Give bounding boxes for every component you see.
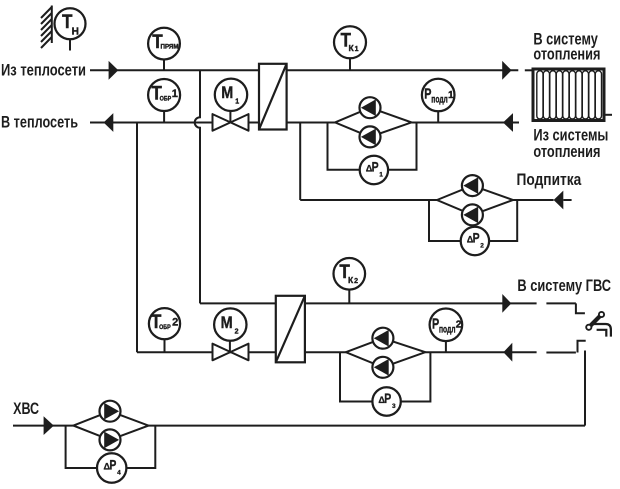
svg-text:ХВС: ХВС <box>13 399 39 418</box>
svg-text:1: 1 <box>235 99 239 106</box>
svg-text:P: P <box>384 390 391 406</box>
svg-text:1: 1 <box>172 88 178 100</box>
svg-text:подл: подл <box>439 325 456 336</box>
svg-text:Подпитка: Подпитка <box>517 170 582 189</box>
svg-text:М: М <box>221 313 233 332</box>
svg-text:1: 1 <box>448 90 454 101</box>
svg-text:ОБР: ОБР <box>159 324 171 331</box>
svg-text:2: 2 <box>235 328 239 335</box>
svg-text:4: 4 <box>117 469 121 476</box>
svg-text:К: К <box>348 275 354 285</box>
svg-text:3: 3 <box>392 403 396 410</box>
svg-text:ПРЯМ: ПРЯМ <box>161 44 179 51</box>
svg-text:Из теплосети: Из теплосети <box>1 61 86 80</box>
svg-text:P: P <box>372 158 379 174</box>
svg-text:отопления: отопления <box>533 142 600 161</box>
svg-text:Н: Н <box>72 27 79 38</box>
svg-text:отопления: отопления <box>533 45 600 64</box>
svg-text:2: 2 <box>172 317 178 329</box>
svg-text:2: 2 <box>354 278 358 285</box>
svg-text:В теплосеть: В теплосеть <box>1 112 78 131</box>
svg-text:ОБР: ОБР <box>160 96 172 103</box>
svg-text:P: P <box>109 456 116 472</box>
svg-text:P: P <box>473 229 480 245</box>
svg-text:1: 1 <box>355 46 359 53</box>
svg-text:2: 2 <box>480 242 484 249</box>
svg-text:В систему ГВС: В систему ГВС <box>517 276 611 295</box>
svg-text:М: М <box>221 83 233 102</box>
svg-text:К: К <box>349 43 355 53</box>
svg-text:подл: подл <box>431 95 448 106</box>
svg-text:1: 1 <box>379 171 383 178</box>
svg-text:2: 2 <box>456 320 462 331</box>
